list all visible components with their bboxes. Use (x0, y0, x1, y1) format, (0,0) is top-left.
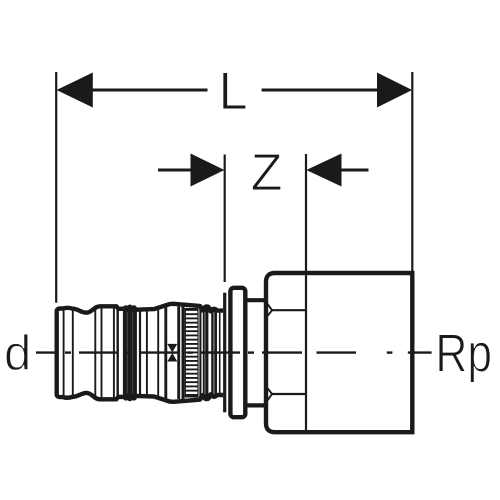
dimension Z tail line left (158, 169, 192, 172)
svg-text:L: L (219, 63, 248, 121)
sleeve inner line 6 (139, 310, 141, 396)
hex chamfer top (267, 304, 272, 317)
dimension Z extension line left (224, 155, 226, 283)
body outline (266, 273, 412, 432)
step ring B (211, 309, 217, 397)
knurl body (185, 308, 199, 398)
flange (230, 288, 245, 417)
indicator window right edge (177, 307, 180, 400)
centerline (36, 351, 432, 353)
sleeve inner line 1 (63, 309, 65, 398)
hex chamfer bottom (267, 388, 272, 401)
dimension L extension line left (55, 72, 57, 303)
indicator hourglass bottom (167, 353, 177, 362)
raised band right edge line (116, 306, 118, 399)
sleeve inner line 8 (157, 310, 159, 396)
dimension Z extension line right (305, 154, 307, 271)
hex facet vertical (305, 275, 307, 430)
dimension Z arrow right (306, 154, 341, 187)
svg-text:Z: Z (251, 144, 283, 202)
dimension Z tail line right (341, 169, 369, 172)
knurl white slots (186, 311, 198, 394)
knurl left edge (182, 306, 185, 400)
sleeve inner line 5 (113, 307, 115, 400)
press sleeve outline (57, 304, 224, 402)
dimension L line left segment (92, 89, 208, 92)
hex facet bottom line (272, 393, 306, 395)
step ring A (203, 307, 209, 399)
neck top edge (246, 298, 266, 302)
indicator hourglass top (167, 344, 177, 353)
hex facet top line (272, 309, 306, 311)
sleeve end thin line (219, 311, 221, 394)
dimension Z arrow left (191, 154, 225, 187)
knurl right edge (199, 306, 201, 399)
washer ring (223, 293, 226, 413)
dimension L arrow left (57, 73, 93, 108)
neck bottom edge (246, 403, 266, 407)
dimension L extension line right (411, 72, 413, 271)
step ring A core (204, 312, 206, 394)
sleeve inner line 7 (146, 310, 148, 396)
svg-text:d: d (4, 327, 31, 381)
sleeve inner line 4 (101, 307, 103, 400)
svg-text:Rp: Rp (435, 323, 492, 383)
sleeve inner line 3 (94, 309, 96, 398)
indicator window left edge (164, 306, 167, 401)
sleeve inner line 2 (72, 309, 74, 397)
press ring (123, 305, 137, 402)
dimension L arrow right (377, 73, 412, 108)
step ring B core (213, 312, 215, 394)
dimension L line right segment (262, 89, 378, 92)
